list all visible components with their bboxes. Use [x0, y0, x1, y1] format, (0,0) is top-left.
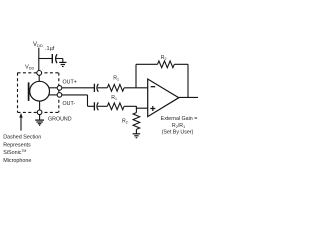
wire feedback to output: [174, 64, 188, 97]
label OUT-: [63, 101, 76, 107]
label VDD (top supply): [33, 42, 43, 48]
svg-text:SiSonicTM: SiSonicTM: [3, 149, 26, 156]
op-amp U1: [148, 79, 179, 117]
resistor R1 top zigzag: [107, 84, 124, 91]
wire cap to R1 bottom: [98, 105, 108, 107]
wire R1 to non-inverting input: [124, 106, 148, 108]
wire R2 shunt to ground: [135, 129, 137, 133]
wire mic out- stub: [49, 94, 58, 96]
svg-text:OUT+: OUT+: [63, 80, 77, 86]
svg-text:External Gain =: External Gain =: [161, 116, 198, 122]
wire mic out+ stub: [49, 87, 58, 89]
capacitor C bypass: [52, 54, 57, 63]
dashed section box: [18, 73, 59, 113]
node VDD (open circle on box top): [37, 71, 42, 76]
wire op-amp output: [179, 96, 198, 98]
label R2 (feedback): [161, 55, 167, 61]
ground (bypass cap): [59, 62, 66, 66]
svg-text:.1µf: .1µf: [45, 46, 55, 52]
label R2 (shunt): [122, 119, 128, 125]
svg-text:(Set By User): (Set By User): [162, 130, 194, 136]
microphone M1 circle: [30, 81, 50, 101]
wire OUT- jog: [62, 95, 94, 106]
wire R1 to inverting input: [124, 87, 148, 89]
svg-text:R2/R1: R2/R1: [172, 123, 185, 129]
svg-text:R1: R1: [111, 95, 117, 101]
wire VDD vertical feed: [38, 48, 40, 71]
op-amp minus sign: [151, 86, 156, 88]
svg-text:VDD: VDD: [33, 42, 43, 48]
resistor R1 bottom zigzag: [107, 103, 124, 110]
svg-text:R2: R2: [122, 119, 128, 125]
wire bypass branch: [39, 58, 52, 60]
capacitor .1uf label: [45, 46, 55, 52]
svg-text:R1: R1: [113, 75, 119, 81]
svg-text:Dashed Section: Dashed Section: [3, 135, 41, 141]
wire mic ground drop: [39, 101, 41, 110]
wire node to mic: [38, 75, 40, 81]
microphone backplate bar: [28, 82, 30, 101]
svg-text:Represents: Represents: [3, 142, 31, 148]
wire cap to ground: [56, 59, 63, 63]
label R1 (bottom): [111, 95, 117, 101]
annotation text external gain: [161, 116, 198, 136]
label OUT+: [63, 80, 77, 86]
wire node to ground symbol: [39, 115, 41, 120]
op-amp plus sign: [150, 106, 155, 111]
wire feedback riser: [136, 64, 158, 88]
wire R2 shunt drop: [135, 106, 137, 112]
svg-text:R2: R2: [161, 55, 167, 61]
annotation text dashed section: [3, 135, 41, 164]
ground (R2 shunt): [133, 134, 141, 138]
ground (microphone): [35, 120, 44, 125]
node OUT+: [57, 86, 62, 91]
annotation arrow leader: [19, 113, 22, 131]
resistor R2 feedback zigzag: [158, 61, 175, 68]
capacitor C2 (OUT- coupling): [94, 102, 98, 110]
capacitor C1 (OUT+ coupling): [94, 84, 98, 92]
label VDD (mic pin): [25, 64, 34, 70]
node GROUND (open circle on box bottom): [37, 110, 42, 115]
svg-text:VDD: VDD: [25, 64, 34, 70]
resistor R2 shunt zigzag (vertical): [133, 113, 140, 130]
label GROUND: [48, 117, 72, 123]
svg-text:Microphone: Microphone: [3, 158, 31, 164]
svg-text:OUT-: OUT-: [63, 101, 76, 107]
wire cap to R1 top: [98, 87, 108, 89]
svg-text:GROUND: GROUND: [48, 117, 72, 123]
label R1 (top): [113, 75, 119, 81]
node OUT-: [57, 93, 62, 98]
wire OUT+ to coupling cap: [62, 87, 94, 89]
